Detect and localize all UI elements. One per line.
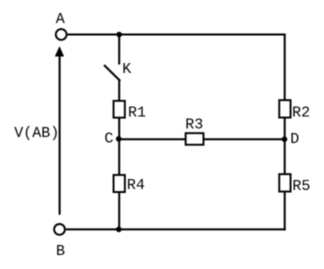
svg-text:D: D	[290, 131, 299, 148]
svg-text:A: A	[56, 11, 65, 28]
resistor R2	[279, 100, 290, 117]
svg-text:C: C	[104, 131, 113, 148]
wire left branch top (junction to switch)	[118, 35, 120, 65]
wire R2 bottom through node D to R5 top	[284, 119, 286, 175]
terminal A	[56, 29, 67, 40]
terminal B	[54, 224, 65, 235]
wire node C to R3 left	[119, 138, 186, 140]
svg-text:B: B	[56, 243, 65, 260]
wire R3 right to node D	[204, 138, 285, 140]
svg-text:R1: R1	[128, 104, 146, 121]
svg-text:V(AB): V(AB)	[14, 125, 59, 142]
node D junction dot	[282, 136, 288, 142]
resistor R5	[279, 174, 290, 191]
svg-text:R3: R3	[185, 117, 203, 134]
junction dot top at left branch	[116, 32, 122, 38]
node C junction dot	[116, 136, 122, 142]
wire top horizontal A to top-right corner	[68, 34, 285, 36]
resistor R4	[114, 175, 125, 192]
wire R5 bottom to bottom-right corner	[284, 192, 286, 231]
resistor R3	[186, 133, 204, 145]
svg-text:R5: R5	[292, 178, 310, 195]
switch K blade (open)	[104, 65, 120, 81]
wire R4 bottom to bottom wire	[118, 192, 120, 229]
svg-text:R4: R4	[127, 177, 145, 194]
wire switch to R1	[118, 80, 120, 101]
wire R1 bottom through node C to R4 top	[118, 118, 120, 175]
resistor R1	[114, 101, 125, 118]
wire right branch vertical (top corner to R2)	[284, 34, 286, 101]
svg-text:K: K	[122, 61, 131, 78]
voltage arrow V(AB) shaft	[59, 53, 61, 215]
svg-text:R2: R2	[292, 105, 310, 122]
junction dot bottom at left branch	[116, 227, 122, 233]
wire bottom horizontal B to bottom-right corner	[66, 228, 286, 230]
voltage arrow head	[56, 47, 64, 56]
